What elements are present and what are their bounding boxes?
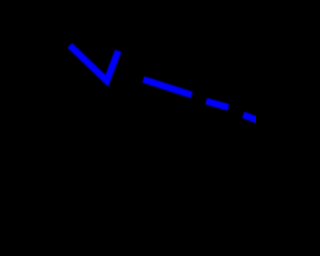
chart line: dash 2 [206,101,228,107]
chart line: dash 1 [143,79,191,95]
chart line: solid V-shaped segment (down-spike) [70,45,118,80]
chart line: dash 3 (runs off right edge) [243,115,258,121]
